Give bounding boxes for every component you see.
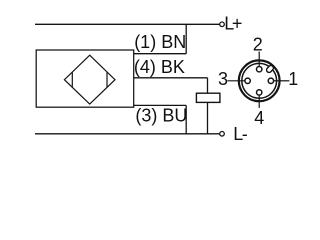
connector tick pin2: [258, 52, 260, 67]
wire BN vertical riser: [185, 24, 187, 53]
connector pin 1: [268, 78, 273, 83]
wire bottom rail to L-: [35, 133, 220, 135]
connector keyway notch: [266, 65, 275, 74]
wire top rail to L+: [35, 23, 220, 25]
svg-text:(3) BU: (3) BU: [135, 105, 187, 125]
connector inner circle: [242, 63, 277, 98]
load resistor: [196, 93, 220, 102]
terminal L-: [220, 132, 225, 137]
wire BU horizontal: [134, 104, 186, 106]
wire BK horizontal: [134, 77, 208, 79]
svg-text:3: 3: [218, 69, 228, 89]
svg-text:L-: L-: [233, 124, 248, 144]
connector M12 face: [227, 52, 289, 108]
sensor box: [36, 50, 134, 107]
connector tick pin3: [227, 80, 244, 82]
diamond right chord: [106, 72, 108, 87]
connector tick pin1: [274, 80, 290, 82]
wire load vertical upper: [207, 78, 209, 93]
wire BN horizontal: [134, 53, 186, 55]
svg-text:L+: L+: [224, 13, 242, 33]
svg-text:1: 1: [288, 69, 298, 89]
diamond left chord: [71, 72, 73, 87]
proximity sensor symbol diamond: [64, 55, 115, 104]
svg-text:4: 4: [254, 108, 264, 128]
connector tick pin4: [258, 96, 260, 108]
connector pin 4: [257, 90, 262, 95]
connector pin 2: [257, 67, 262, 72]
svg-text:2: 2: [253, 35, 263, 55]
svg-text:(4) BK: (4) BK: [134, 57, 185, 77]
svg-text:(1) BN: (1) BN: [134, 32, 186, 52]
connector pin 3: [245, 78, 250, 83]
terminal L+: [220, 22, 225, 27]
wire load vertical lower: [207, 102, 209, 133]
connector outer circle: [239, 60, 280, 101]
wire BU vertical drop: [185, 105, 187, 133]
